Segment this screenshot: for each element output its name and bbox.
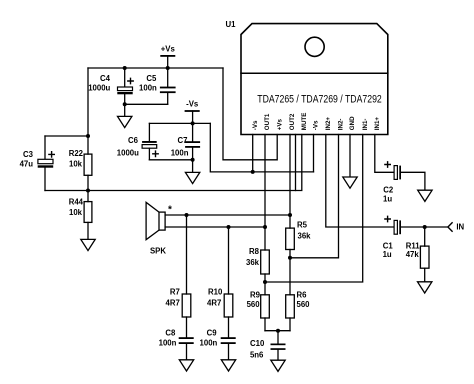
- op-amp U1 TDA7265/TDA7269/TDA7292 package: [241, 24, 388, 135]
- svg-text:IN1-: IN1-: [362, 118, 369, 130]
- svg-text:R9: R9: [250, 290, 261, 299]
- wire pin 9 GND: [349, 135, 351, 178]
- node C3 branch junction: [86, 134, 90, 138]
- svg-text:47k: 47k: [406, 250, 420, 259]
- ground below R11: [418, 282, 432, 293]
- svg-text:R10: R10: [208, 288, 223, 297]
- capacitor C6 1000u top lead: [148, 123, 150, 141]
- wire feedback bottom rail to MUTE pin: [45, 135, 302, 191]
- resistor R8: [261, 250, 270, 274]
- ground below C4: [118, 116, 132, 127]
- wire left rail down to R22: [87, 68, 89, 154]
- wire C6 bottom lead: [148, 148, 150, 160]
- svg-text:SPK: SPK: [150, 246, 166, 255]
- wire R44 to ground: [87, 222, 89, 239]
- ground below C9: [221, 360, 235, 371]
- capacitor C4 1000u top lead: [124, 68, 126, 87]
- resistor R22: [84, 154, 92, 175]
- wire R9/R6 bottom joining: [265, 330, 290, 332]
- wire C3 branch horizontal: [45, 135, 88, 137]
- wire +Vs rail: [88, 67, 223, 69]
- supply +Vs symbol: [161, 45, 176, 69]
- resistor R10: [224, 294, 233, 317]
- svg-text:C10: C10: [250, 339, 265, 348]
- svg-text:+Vs: +Vs: [161, 45, 176, 54]
- svg-text:MUTE: MUTE: [301, 113, 308, 131]
- resistor R11: [420, 246, 429, 268]
- wire -Vs top rail: [149, 122, 210, 124]
- wire C3 bottom lead: [44, 168, 46, 191]
- wire C3 top lead: [44, 136, 46, 159]
- ground below pin 9: [343, 177, 357, 188]
- ground below C2: [418, 190, 432, 201]
- wire SPK bottom to OUT1 line: [165, 226, 265, 228]
- svg-text:100n: 100n: [171, 149, 189, 158]
- capacitor C6 1000u: [142, 141, 158, 157]
- wire R9 bottom: [264, 318, 266, 331]
- wire R6 bottom: [289, 318, 291, 331]
- supply -Vs symbol: [186, 100, 199, 124]
- capacitor C5 100n top lead: [167, 68, 169, 87]
- node +Vs stub on rail: [166, 66, 170, 70]
- ground below C8: [179, 360, 193, 371]
- wire R8 junction to pin 10 IN1-: [265, 135, 363, 283]
- wire pin 4 OUT2 down to R5: [289, 135, 291, 229]
- svg-text:4R7: 4R7: [165, 298, 179, 307]
- svg-text:IN2+: IN2+: [325, 117, 332, 131]
- svg-text:1u: 1u: [383, 250, 392, 259]
- capacitor C5 100n: [160, 87, 176, 94]
- svg-text:-Vs: -Vs: [313, 120, 320, 130]
- svg-text:C8: C8: [165, 329, 176, 338]
- wire C9 bottom lead: [228, 344, 230, 360]
- wire R11 top lead: [424, 227, 426, 246]
- ground below C10: [271, 360, 285, 371]
- svg-text:1u: 1u: [383, 195, 392, 204]
- svg-text:C2: C2: [383, 185, 394, 194]
- wire +Vs rail to pin 3: [223, 68, 277, 160]
- node C10 branch: [276, 329, 280, 333]
- wire C6/C7 bottom: [149, 159, 192, 161]
- svg-text:C3: C3: [23, 150, 34, 159]
- svg-text:+Vs: +Vs: [276, 118, 283, 130]
- node C6/C7 ground junction: [191, 158, 195, 162]
- node R8 bottom junction: [263, 280, 267, 284]
- wire pin 2 OUT1 down to R8: [264, 135, 266, 251]
- svg-text:10k: 10k: [69, 160, 83, 169]
- wire R10 to C9: [228, 317, 230, 337]
- svg-text:100n: 100n: [139, 83, 157, 92]
- wire R10 branch down: [228, 227, 230, 294]
- resistor R9: [261, 295, 270, 318]
- wire C4 bottom lead: [124, 94, 126, 116]
- svg-text:C6: C6: [128, 136, 139, 145]
- capacitor C7 100n top lead: [192, 123, 194, 141]
- svg-text:C9: C9: [207, 329, 218, 338]
- svg-text:GND: GND: [349, 116, 356, 130]
- capacitor C8 100n: [179, 337, 194, 344]
- wire pin 11 IN1+ to C2: [375, 135, 394, 173]
- wire R7 branch down: [186, 215, 188, 294]
- svg-text:OUT2: OUT2: [289, 113, 296, 130]
- svg-text:-Vs: -Vs: [186, 100, 199, 109]
- svg-text:1000u: 1000u: [117, 149, 139, 158]
- wire C5 bottom lead: [167, 93, 169, 104]
- wire R7 to C8: [186, 317, 188, 337]
- capacitor C3 47u: [38, 152, 55, 168]
- node R11 junction: [423, 225, 427, 229]
- svg-text:47u: 47u: [20, 160, 34, 169]
- svg-text:100n: 100n: [159, 339, 177, 348]
- svg-text:R22: R22: [69, 149, 84, 158]
- speaker SPK: [146, 202, 172, 239]
- wire C4 to C5 bottom: [125, 103, 168, 105]
- wire R5 bottom to R6: [289, 250, 291, 295]
- capacitor C9 100n: [221, 337, 236, 344]
- svg-text:IN1+: IN1+: [374, 117, 381, 131]
- svg-text:36k: 36k: [298, 232, 312, 241]
- wire C8 bottom lead: [186, 344, 188, 360]
- wire pin 6: [313, 135, 315, 172]
- capacitor C1 1u: [385, 216, 401, 234]
- capacitor C7 100n: [185, 141, 200, 148]
- wire R5 junction to pin 8 IN2-: [290, 135, 339, 258]
- svg-text:OUT1: OUT1: [264, 113, 271, 130]
- wire C10 top lead: [277, 331, 279, 344]
- capacitor C4 1000u: [117, 78, 133, 94]
- wire R11 bottom lead: [424, 268, 426, 282]
- svg-text:IN: IN: [456, 222, 464, 231]
- svg-text:-Vs: -Vs: [252, 120, 259, 130]
- wire pin 1: [252, 135, 254, 172]
- wire C10 bottom lead: [277, 350, 279, 360]
- svg-text:5n6: 5n6: [250, 351, 264, 360]
- node -Vs stub junction: [191, 121, 195, 125]
- svg-text:36k: 36k: [246, 258, 260, 267]
- wire SPK top to OUT2 line: [165, 214, 290, 216]
- capacitor C10 5n6: [271, 344, 286, 350]
- svg-text:4R7: 4R7: [207, 298, 221, 307]
- ground below R44: [81, 239, 95, 250]
- wire R22 bottom to R44 top: [87, 175, 89, 201]
- node pin1 on -Vs wire: [251, 170, 255, 174]
- svg-text:TDA7265 / TDA7269 / TDA7292: TDA7265 / TDA7269 / TDA7292: [257, 94, 382, 106]
- svg-text:R7: R7: [170, 288, 180, 297]
- wire C2 to ground: [401, 172, 425, 190]
- ground below C7: [185, 172, 199, 183]
- wire -Vs rail to pins 1 and 6: [210, 123, 313, 171]
- svg-text:R5: R5: [297, 221, 308, 230]
- resistor R6: [286, 295, 295, 318]
- node C4/C5 ground junction: [123, 102, 127, 106]
- wire stand-by stub: [295, 135, 297, 191]
- node SPK top on pin4 line: [288, 213, 292, 217]
- svg-text:R6: R6: [297, 290, 308, 299]
- resistor R5: [286, 228, 295, 249]
- wire C1 to IN connector: [401, 226, 448, 228]
- wire C7 bottom lead: [192, 148, 194, 173]
- svg-text:U1: U1: [226, 20, 237, 29]
- svg-text:R8: R8: [249, 247, 260, 256]
- wire pin 7 IN2+ to C1: [326, 135, 394, 228]
- svg-text:IN2-: IN2-: [338, 118, 345, 130]
- svg-text:R44: R44: [69, 197, 84, 206]
- node R7 branch: [185, 213, 189, 217]
- node C4 on +Vs rail: [123, 66, 127, 70]
- svg-text:560: 560: [247, 300, 261, 309]
- node SPK bottom on pin2 line: [263, 225, 267, 229]
- svg-text:C7: C7: [178, 136, 188, 145]
- capacitor C2 1u: [385, 162, 401, 180]
- connector IN: [448, 223, 452, 231]
- node R5 bottom junction: [288, 256, 292, 260]
- node R10 branch: [227, 225, 231, 229]
- svg-text:10k: 10k: [69, 208, 83, 217]
- svg-text:C5: C5: [146, 74, 157, 83]
- svg-text:100n: 100n: [200, 339, 218, 348]
- svg-text:1000u: 1000u: [88, 83, 110, 92]
- svg-text:560: 560: [297, 300, 311, 309]
- node R22/R44 junction: [86, 189, 90, 193]
- svg-text:C4: C4: [100, 74, 111, 83]
- wire R8 bottom to R9: [264, 274, 266, 295]
- svg-text:*: *: [168, 205, 172, 216]
- resistor R44: [84, 202, 92, 223]
- resistor R7: [182, 294, 191, 317]
